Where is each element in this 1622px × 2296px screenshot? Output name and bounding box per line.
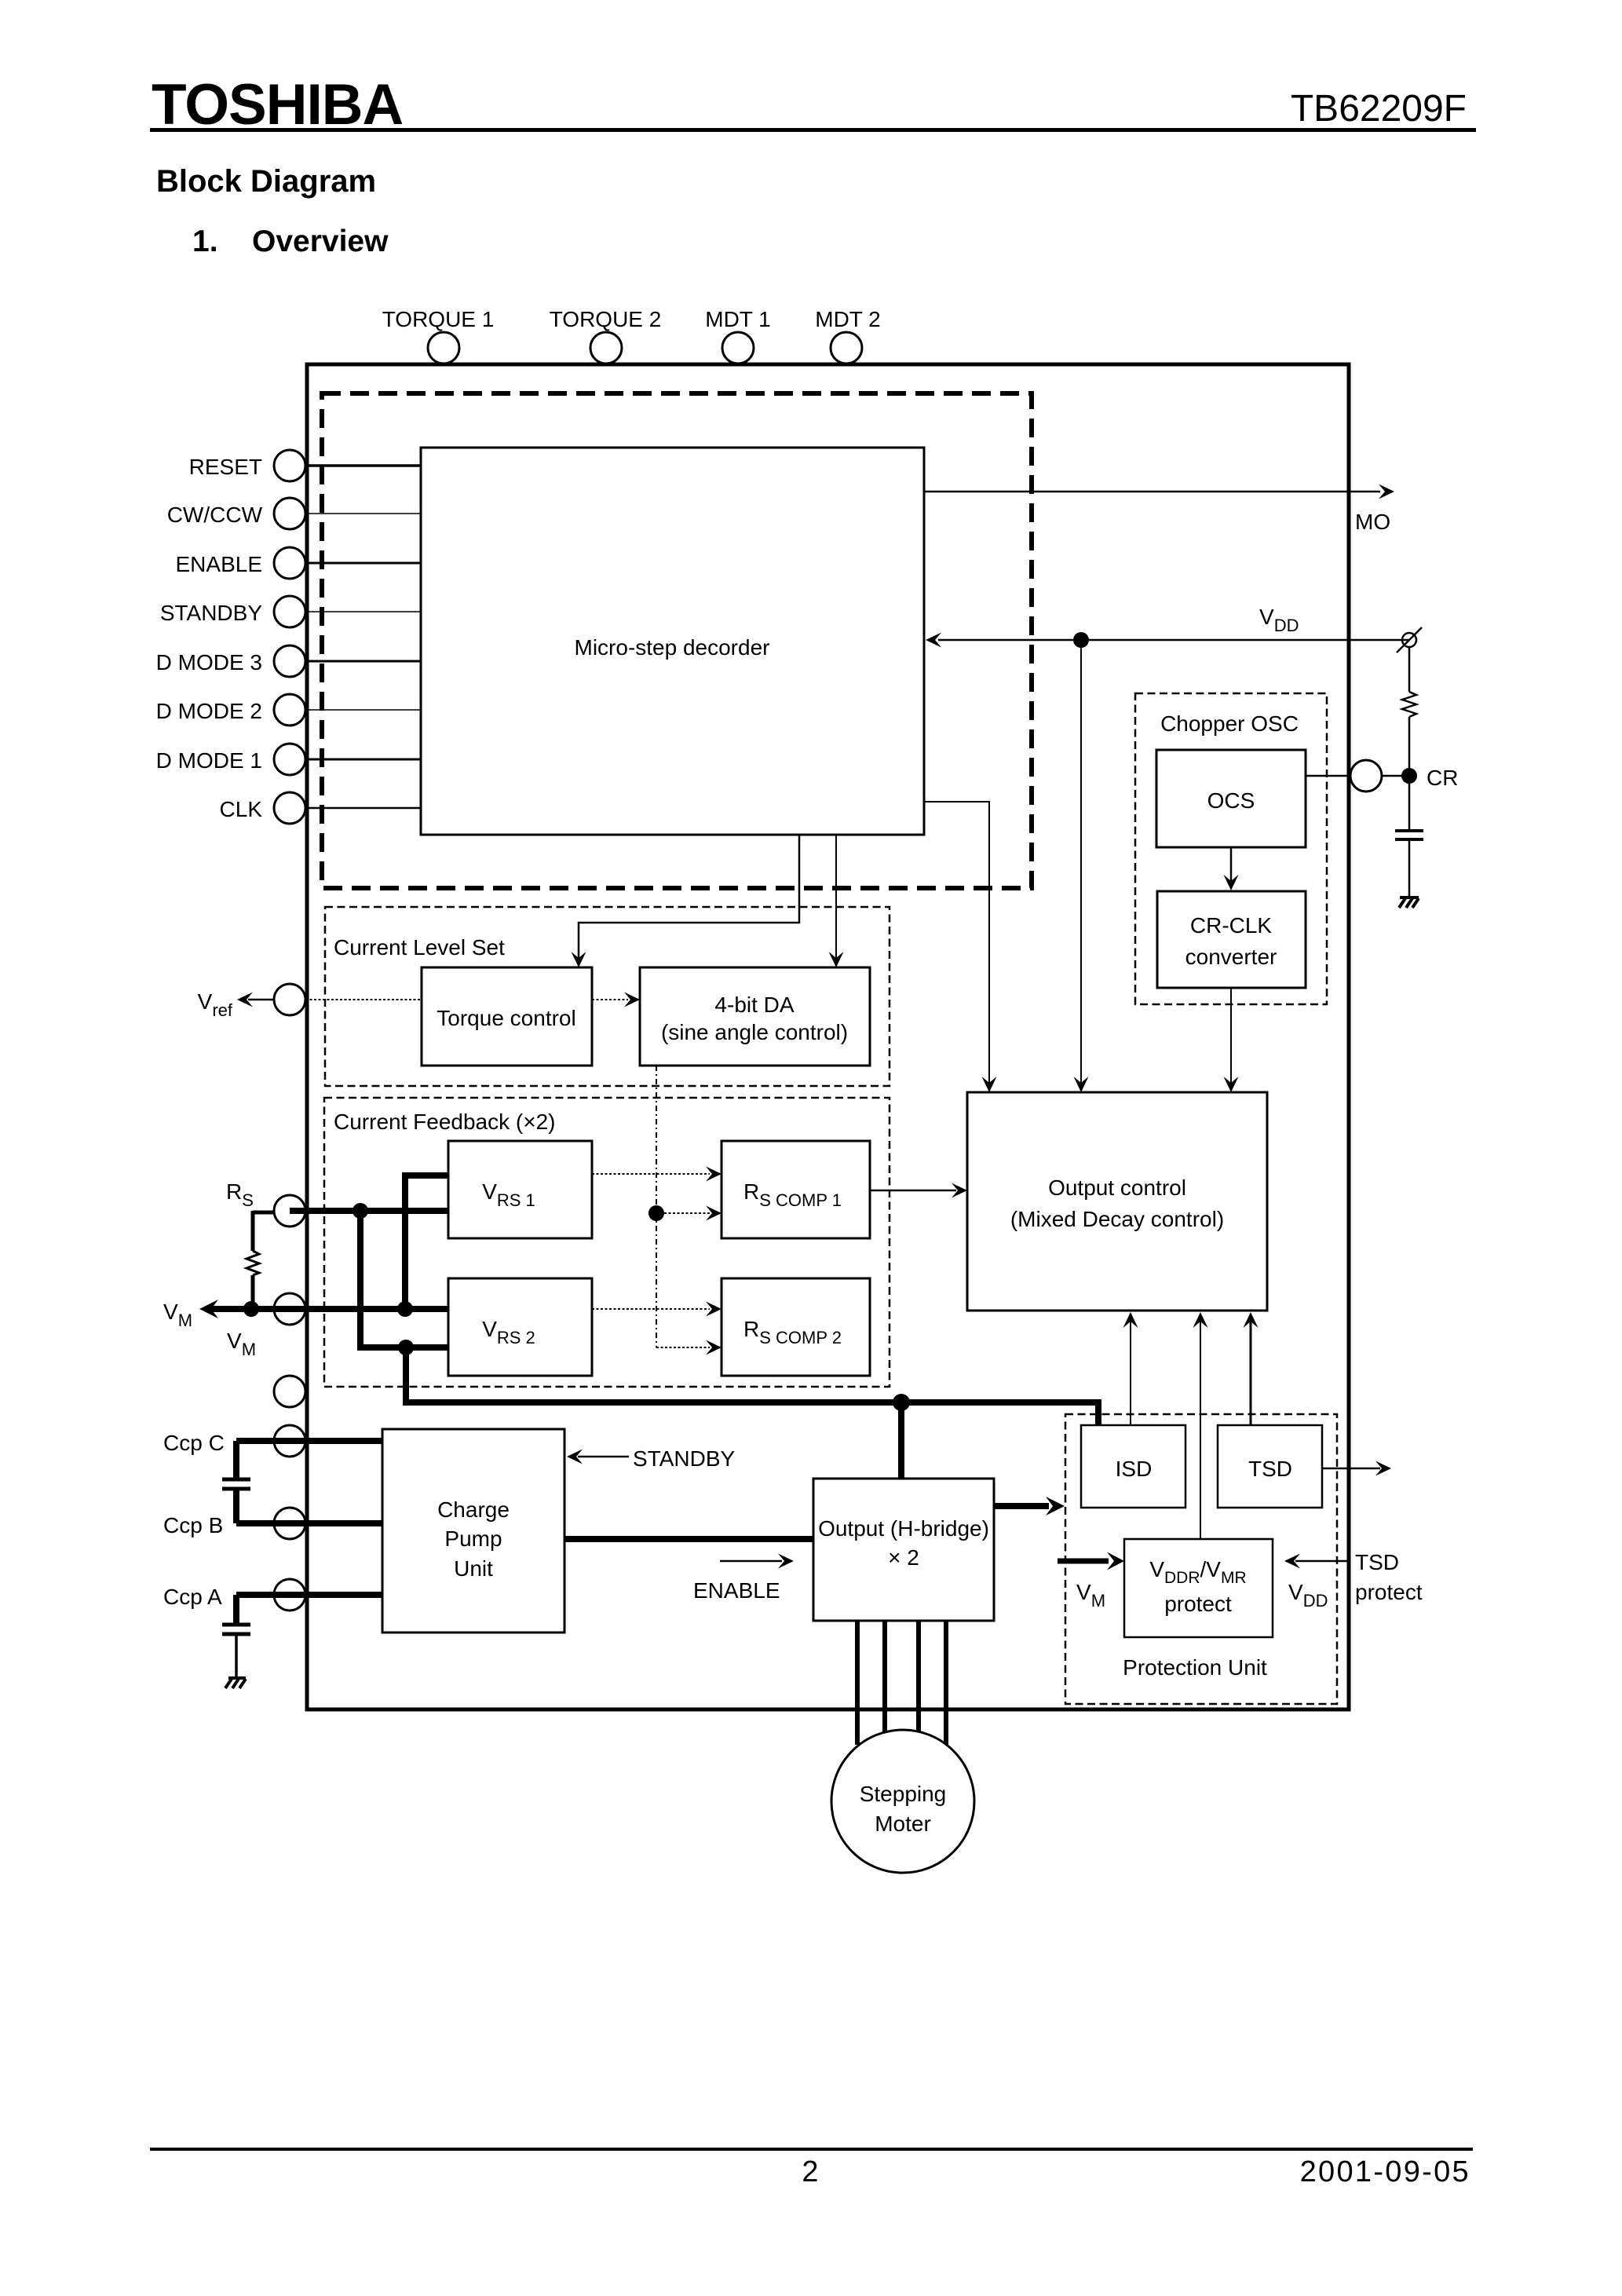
arrow OCS to CR-CLK [1224,847,1239,890]
junction dot sense branch [398,1340,414,1355]
wire VDD with left arrow into decoder [926,633,1409,648]
wire D MODE 2 [306,709,421,711]
dotted wire Vref to Torque control [305,999,422,1000]
svg-text:Chopper OSC: Chopper OSC [1160,711,1299,736]
dotted arrow DA to RS COMP 1 [664,1206,721,1221]
dotted arrow VRS2 to RS COMP2 [592,1302,721,1317]
block 4-bit DA [640,967,870,1066]
wire RS branch down and into VRS2 (thick) [360,1211,448,1347]
wire STANDBY [306,611,421,612]
block TSD [1218,1425,1322,1508]
pin ENABLE [176,547,306,579]
block RS COMP 2 [721,1278,870,1376]
chopper OSC dashed boundary [1135,693,1327,1004]
svg-text:(Mixed Decay control): (Mixed Decay control) [1010,1207,1224,1231]
svg-text:protect: protect [1355,1580,1423,1604]
wire VM branch up into VRS1 (thick) [405,1175,448,1309]
stepping motor [831,1730,974,1873]
pin Ccp C circle [274,1425,305,1457]
wire sense line to protection (thick) [403,1402,1098,1425]
capacitor external C [1395,831,1423,897]
svg-text:MO: MO [1355,510,1390,534]
arrow VDDR to Output control [1193,1312,1208,1539]
svg-text:Micro-step decorder: Micro-step decorder [575,635,770,660]
svg-text:MDT 2: MDT 2 [815,307,881,331]
svg-text:Output (H-bridge): Output (H-bridge) [818,1516,989,1541]
block VRS2 [448,1278,592,1376]
svg-text:2001-09-05: 2001-09-05 [1300,2155,1470,2188]
footer date [1300,2155,1470,2188]
IC outer boundary box [307,364,1349,1709]
svg-text:Unit: Unit [454,1556,493,1581]
svg-text:protect: protect [1164,1592,1232,1616]
header rule [150,128,1476,132]
current feedback dashed boundary [324,1098,890,1387]
svg-text:ENABLE: ENABLE [693,1578,780,1603]
svg-text:MDT 1: MDT 1 [705,307,771,331]
svg-text:Pump: Pump [444,1526,502,1551]
svg-text:Current Level Set: Current Level Set [334,935,505,960]
wire decoder right to Output control [924,802,997,1092]
wire Ccp A (thick) [236,1592,382,1598]
junction dot VM to VRS1 branch [397,1301,413,1317]
svg-text:Ccp A: Ccp A [163,1585,222,1609]
dotted arrow Torque control to 4-bit DA [592,993,640,1007]
arrow VDD into VDDR protect [1284,1554,1349,1611]
wire OCS to CR pin [1306,775,1350,777]
wire VM line to VRS2 (thick) [199,1300,448,1318]
svg-text:OCS: OCS [1207,788,1255,813]
pin Ccp B circle [274,1508,305,1539]
wire decoder to 4-bit DA [829,835,844,967]
wire VDD junction down to Output control [1074,640,1089,1092]
pin MDT 2 [815,307,881,364]
pin CW/CCW [167,498,305,529]
pin MDT 1 [705,307,771,364]
motor wire 3 [916,1621,921,1732]
pin RESET [189,450,305,481]
pin RS label [226,1179,254,1210]
block Output control [967,1092,1267,1311]
svg-text:RS: RS [226,1179,254,1210]
pin D MODE 1 [156,744,305,775]
block Torque control [422,967,592,1066]
motor wire 1 [855,1621,860,1745]
pin CLK [220,792,305,824]
arrow ISD to Output control [1123,1312,1138,1425]
node VDD label [1259,605,1299,635]
dotted arrow DA to RS COMP 2 [656,1340,721,1355]
svg-text:CLK: CLK [220,797,263,821]
svg-text:TORQUE 2: TORQUE 2 [550,307,662,331]
svg-text:Vref: Vref [198,989,233,1020]
svg-text:VM: VM [227,1329,256,1359]
wire sense line down (thick) [403,1347,409,1402]
block U1 Micro-step decoder [421,448,924,835]
wire MO with arrow [924,484,1394,499]
pin CR circle [1350,760,1382,792]
pin VM circle [274,1293,305,1325]
svg-text:Torque control: Torque control [437,1006,575,1030]
svg-text:4-bit DA: 4-bit DA [714,993,794,1017]
wire Ccp B (thick) [236,1520,382,1526]
pin Ccp B label [163,1513,223,1537]
pin TORQUE 1 [382,307,495,364]
arrow STANDBY into Charge Pump [567,1446,735,1471]
svg-text:converter: converter [1185,945,1277,969]
wire sense to H-bridge top (thick) [898,1402,904,1479]
svg-text:STANDBY: STANDBY [160,601,262,625]
arrow VM into VDDR protect (thick) [1058,1552,1124,1611]
wire D MODE 3 [306,660,421,663]
block VRS1 [448,1141,592,1238]
resistor external R [1402,692,1416,717]
svg-text:ENABLE: ENABLE [176,552,263,576]
title Block Diagram [156,164,376,199]
node TSD protect label [1355,1550,1423,1604]
svg-text:Charge: Charge [437,1497,510,1522]
motor wire 4 [944,1621,948,1745]
block RS COMP 1 [721,1141,870,1238]
svg-text:TOSHIBA: TOSHIBA [152,73,403,137]
wire CLK [306,807,421,810]
ground symbol (Ccp A) [225,1678,246,1688]
svg-text:TSD: TSD [1248,1457,1292,1481]
svg-text:Current Feedback (×2): Current Feedback (×2) [334,1110,555,1134]
arrow ENABLE [693,1554,794,1603]
pin Vref arrow and label [198,989,273,1020]
capacitor Ccp A [222,1595,250,1677]
svg-text:(sine angle control): (sine angle control) [661,1020,848,1044]
block VDDR/VMR protect [1124,1539,1273,1637]
wire CW/CCW [306,513,421,514]
svg-text:Block Diagram: Block Diagram [156,164,376,199]
junction dot CR [1401,768,1417,784]
junction dot RS branch [353,1203,368,1219]
svg-text:VDD: VDD [1288,1580,1328,1610]
svg-text:STANDBY: STANDBY [633,1446,735,1471]
svg-text:× 2: × 2 [888,1545,919,1570]
junction dot on VDD line [1073,632,1089,648]
page number [802,2155,818,2188]
pin D MODE 3 [156,645,305,677]
block OCS [1156,750,1306,847]
svg-text:Ccp B: Ccp B [163,1513,223,1537]
junction dot sense to H-bridge [893,1394,910,1411]
block CR-CLK converter [1157,891,1306,988]
wire ENABLE [306,562,421,565]
pin Ccp A label [163,1585,222,1609]
svg-text:Ccp C: Ccp C [163,1431,225,1455]
node MO label [1355,510,1390,534]
arrow H-bridge to Protection Unit (thick) [994,1497,1065,1515]
capacitor Ccp C-B [222,1441,250,1523]
pin TORQUE 2 [550,307,662,364]
pin Ccp A circle [274,1579,305,1610]
svg-text:Moter: Moter [875,1812,931,1836]
terminal phi (external R) [1397,627,1422,653]
svg-text:ISD: ISD [1116,1457,1153,1481]
current level set dashed boundary [325,907,890,1086]
block Output H-bridge [813,1479,994,1621]
dotted arrow VRS1 to RS COMP1 [592,1167,721,1182]
svg-text:Output control: Output control [1048,1175,1186,1200]
footer rule [150,2148,1473,2151]
ground symbol (CR network) [1399,898,1419,908]
resistor RS external [247,1211,275,1309]
wire RS COMP1 to Output control [870,1183,967,1198]
svg-text:2: 2 [802,2155,818,2188]
svg-text:VDD: VDD [1259,605,1299,635]
part number TB62209F [1291,88,1467,130]
protection unit dashed boundary [1065,1414,1337,1704]
svg-text:TORQUE 1: TORQUE 1 [382,307,495,331]
dotted wire 4-bit DA down to comparators [656,1066,657,1347]
svg-text:CW/CCW: CW/CCW [167,503,263,527]
svg-text:TB62209F: TB62209F [1291,88,1467,130]
pin VM label [227,1329,256,1359]
pin RS circle [274,1195,305,1227]
subtitle 1. Overview [192,225,389,258]
pin Vref circle [274,984,305,1015]
wire Charge Pump to H-bridge (thick) [564,1536,813,1542]
svg-text:CR: CR [1427,766,1458,790]
svg-text:D MODE 1: D MODE 1 [156,748,262,773]
pin D MODE 2 [156,694,305,726]
wire Ccp C (thick) [236,1438,382,1444]
Toshiba logo [152,73,403,137]
wire decoder to Torque control [572,835,800,967]
svg-text:Overview: Overview [252,225,389,258]
block Charge Pump Unit [382,1429,564,1632]
svg-text:D MODE 2: D MODE 2 [156,699,262,723]
svg-text:VM: VM [163,1300,192,1330]
arrow TSD output right [1322,1461,1391,1476]
wire resistor to CR node [1408,717,1411,831]
wire D MODE 1 [306,759,421,761]
svg-text:Stepping: Stepping [860,1782,947,1806]
svg-text:TSD: TSD [1355,1550,1399,1574]
svg-text:Protection Unit: Protection Unit [1123,1655,1267,1680]
pin Ccp C label [163,1431,225,1455]
junction dot VM node [243,1301,259,1317]
block ISD [1081,1425,1185,1508]
wire RESET [306,464,421,467]
wire RS pin to VRS1 (thick) [290,1208,448,1214]
svg-text:1.: 1. [192,225,218,258]
pin NC circle [274,1376,305,1407]
arrow TSD to Output control [1244,1312,1259,1425]
node CR label [1427,766,1458,790]
pin STANDBY [160,596,305,627]
svg-text:D MODE 3: D MODE 3 [156,650,262,675]
micro-step decoder dashed boundary [322,393,1032,888]
arrow CR-CLK to Output control [1224,988,1239,1092]
svg-text:RESET: RESET [189,455,262,479]
wire CR circle to node [1382,775,1409,777]
svg-text:VM: VM [1076,1580,1105,1610]
wire phi to resistor [1408,647,1411,692]
motor wire 2 [882,1621,887,1732]
junction dot DA line 1 [648,1205,664,1221]
svg-text:CR-CLK: CR-CLK [1190,913,1273,938]
node VM label left [163,1300,192,1330]
